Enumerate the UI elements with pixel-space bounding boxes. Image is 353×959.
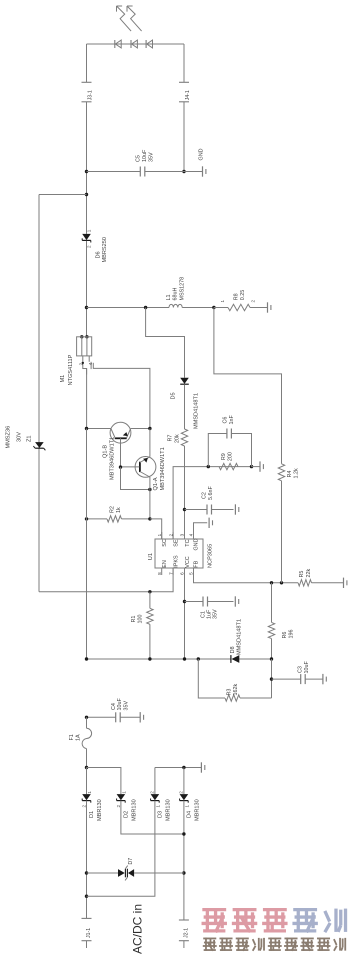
watermark brand text	[202, 908, 346, 951]
wire Q1-B collector to rail	[131, 427, 152, 430]
wire F1 to bridge	[85, 717, 88, 769]
svg-text:MSS1278: MSS1278	[179, 277, 185, 301]
svg-text:D2: D2	[123, 811, 129, 818]
IC U1 NCP3065 (switching regulator)	[148, 532, 213, 575]
wire main column mid	[86, 429, 88, 660]
svg-text:10uF: 10uF	[142, 149, 148, 162]
svg-text:2: 2	[116, 805, 121, 808]
capacitor C6 1nF	[208, 415, 251, 467]
svg-text:R2: R2	[109, 506, 115, 513]
wire rail Q1A emitter segments	[149, 429, 151, 519]
diode D8 MMSD4148T1	[230, 619, 243, 663]
wire D6 to switch node	[85, 241, 88, 337]
svg-text:MBRS250: MBRS250	[102, 237, 108, 263]
LED diode 2 (external string)	[131, 40, 137, 48]
svg-text:2: 2	[149, 791, 154, 794]
svg-text:1.2k: 1.2k	[294, 468, 300, 478]
ground (C2)	[235, 504, 238, 514]
svg-text:2: 2	[251, 300, 256, 303]
svg-text:Z1: Z1	[27, 435, 33, 442]
wire R6 bottom node	[270, 659, 273, 681]
svg-text:NCP3065: NCP3065	[208, 544, 214, 568]
wire EN rail to pin7	[39, 568, 173, 594]
svg-text:4: 4	[88, 362, 93, 365]
svg-text:20k: 20k	[174, 434, 180, 443]
svg-text:NTGS4111P: NTGS4111P	[68, 354, 74, 385]
resistor R4 1.2k	[278, 464, 299, 481]
svg-text:R8: R8	[233, 293, 239, 300]
svg-text:J3-1: J3-1	[87, 90, 93, 100]
wire R7 to pin3 (TC)	[183, 446, 186, 539]
svg-text:R6: R6	[282, 632, 288, 639]
svg-text:D5: D5	[171, 392, 177, 399]
ground (R5)	[344, 578, 347, 588]
wire pin6 (VCC) down	[183, 568, 186, 659]
svg-text:F1: F1	[69, 734, 75, 740]
svg-text:MBR130: MBR130	[194, 799, 200, 821]
capacitor C1 1uF 35V	[185, 597, 234, 620]
svg-text:M1: M1	[60, 375, 66, 383]
svg-text:22k: 22k	[306, 569, 312, 578]
wire pin5 (FB) feedback line	[194, 568, 299, 585]
svg-text:68uH: 68uH	[173, 288, 179, 301]
wire Q1 base link	[119, 465, 140, 468]
svg-text:6: 6	[180, 572, 185, 575]
svg-text:1k: 1k	[116, 507, 122, 513]
svg-text:30V: 30V	[17, 432, 23, 442]
svg-text:C3: C3	[298, 666, 304, 673]
svg-text:1: 1	[220, 300, 225, 303]
svg-text:1nF: 1nF	[229, 415, 235, 425]
svg-text:TC: TC	[185, 539, 191, 546]
svg-text:IPKS: IPKS	[173, 555, 179, 568]
svg-text:200: 200	[227, 452, 233, 461]
svg-text:7: 7	[168, 572, 173, 575]
connector J1-1	[82, 918, 93, 948]
svg-text:SC: SC	[162, 539, 168, 547]
wire bridge AC top left	[87, 768, 121, 795]
svg-text:J1-1: J1-1	[86, 928, 92, 938]
svg-text:1: 1	[122, 791, 127, 794]
resistor R8 0.25 (current sense)	[214, 290, 268, 311]
ground GND (output)	[184, 148, 206, 176]
wire to pin1 (SC)	[150, 519, 162, 539]
svg-text:4: 4	[189, 533, 194, 536]
diode D4 MBR130	[178, 791, 200, 821]
svg-text:2: 2	[178, 791, 183, 794]
svg-text:C2: C2	[201, 492, 207, 499]
svg-text:L1: L1	[166, 295, 172, 301]
wire D3 top leg	[154, 768, 156, 795]
svg-text:R9: R9	[221, 453, 227, 460]
resistor R7 20k	[168, 429, 188, 446]
svg-text:Q1-A: Q1-A	[153, 477, 159, 490]
svg-text:1uF: 1uF	[207, 609, 213, 619]
svg-text:0.25: 0.25	[240, 290, 246, 301]
svg-text:2: 2	[168, 533, 173, 536]
svg-text:D4: D4	[186, 811, 192, 818]
svg-text:D7: D7	[128, 858, 134, 865]
resistor R9 200	[219, 452, 238, 470]
connector J4-1	[179, 82, 191, 102]
connector J3-1	[82, 82, 94, 102]
wire D2 to D4 column	[121, 801, 184, 834]
wire switch node to D5	[146, 308, 185, 378]
wire D4 top leg	[183, 768, 185, 795]
svg-text:R3: R3	[226, 689, 232, 696]
ground (comp network)	[252, 461, 264, 471]
wire R4 to FB	[281, 481, 283, 583]
svg-text:SE: SE	[173, 539, 179, 547]
label AC/DC in	[130, 904, 144, 954]
capacitor C5	[87, 149, 185, 176]
wire LED string top	[87, 43, 185, 45]
svg-text:196: 196	[289, 630, 295, 639]
wire D1 top leg	[86, 768, 88, 795]
svg-text:MBT3946DW1T1: MBT3946DW1T1	[110, 437, 116, 480]
diode D2 MBR130	[116, 791, 137, 821]
wire bridge gnd top right	[155, 766, 202, 769]
svg-text:3: 3	[180, 533, 185, 536]
svg-text:J2-1: J2-1	[184, 928, 190, 938]
wire D4 to J2-1 column	[182, 801, 185, 920]
svg-text:R4: R4	[287, 471, 293, 478]
svg-text:MMSD4148T1: MMSD4148T1	[193, 393, 199, 429]
svg-text:D8: D8	[230, 646, 236, 653]
svg-text:8: 8	[157, 572, 162, 575]
svg-text:D1: D1	[89, 811, 95, 818]
svg-text:2: 2	[79, 362, 84, 365]
svg-text:162k: 162k	[233, 684, 239, 696]
svg-text:GND: GND	[198, 148, 204, 160]
diode D1 MBR130	[82, 791, 103, 821]
fuse F1 1A	[69, 728, 92, 748]
svg-text:1: 1	[156, 805, 161, 808]
ground (C4)	[140, 712, 143, 722]
diode D5 MMSD4148T1	[171, 378, 200, 429]
svg-text:MBR130: MBR130	[131, 799, 137, 821]
svg-text:R5: R5	[299, 571, 305, 578]
transistor M1 NTGS4111P (P-MOSFET)	[60, 335, 93, 385]
svg-text:MBR130: MBR130	[97, 799, 103, 821]
svg-text:C6: C6	[222, 417, 228, 424]
svg-text:C1: C1	[201, 611, 207, 618]
svg-text:AC/DC in: AC/DC in	[130, 904, 144, 954]
svg-text:EN: EN	[162, 560, 168, 568]
LED light-emission arrows	[117, 6, 142, 31]
diode D7 (bidirectional TVS)	[87, 858, 184, 881]
ground (C1)	[235, 596, 238, 606]
ground (after R8)	[268, 302, 271, 312]
svg-text:U1: U1	[148, 553, 154, 560]
capacitor C4 10uF 35V	[85, 698, 140, 723]
zener Z1 MMSZ36 30V	[6, 426, 46, 451]
svg-text:35V: 35V	[123, 701, 129, 711]
svg-text:1: 1	[87, 229, 92, 232]
wire sense node to R4	[214, 308, 282, 464]
svg-text:D6: D6	[95, 251, 101, 258]
svg-text:J4-1: J4-1	[185, 90, 191, 100]
resistor R5 22k	[298, 569, 343, 586]
svg-text:VCC: VCC	[185, 556, 191, 567]
LED diode 3 (external string)	[146, 40, 152, 48]
svg-text:5.6nF: 5.6nF	[208, 486, 214, 500]
svg-text:Q1-B: Q1-B	[103, 445, 109, 458]
svg-text:2: 2	[82, 805, 87, 808]
svg-text:MMSZ36: MMSZ36	[6, 426, 12, 449]
wire Q1 base loop to rail	[121, 467, 152, 491]
inductor L1 68uH MSS1278	[166, 277, 185, 308]
wire D1 to J1-1 column	[85, 801, 88, 919]
resistor R3 162k	[198, 659, 271, 701]
svg-text:10uF: 10uF	[304, 661, 310, 674]
wire left rail (EN rail)	[38, 195, 40, 592]
diode D6 MBRS250	[82, 229, 108, 262]
wire LED left leg	[86, 44, 88, 82]
svg-text:R1: R1	[131, 616, 137, 623]
svg-text:MBR130: MBR130	[165, 799, 171, 821]
wire J4-1 down to C5/GND node	[182, 102, 185, 173]
wire M1 gate to Q1 rail	[93, 368, 150, 428]
resistor R2 1k	[85, 506, 152, 522]
ground (C3)	[323, 674, 326, 684]
svg-text:10uF: 10uF	[117, 698, 123, 711]
resistor R6 196	[268, 583, 294, 659]
svg-text:2: 2	[87, 245, 92, 248]
wire node to left rail	[39, 194, 87, 196]
wire node to Q1-B emitter	[85, 427, 111, 430]
svg-text:MMSD4148T1: MMSD4148T1	[237, 619, 243, 655]
wire switch node horizontal	[87, 306, 216, 309]
ground (pin4)	[209, 518, 212, 528]
svg-text:C4: C4	[111, 703, 117, 710]
svg-text:D3: D3	[157, 811, 163, 818]
wire pin4 (GND) to ground	[194, 523, 208, 539]
svg-text:1: 1	[157, 533, 162, 536]
svg-text:35V: 35V	[213, 609, 219, 619]
svg-text:35V: 35V	[149, 152, 155, 162]
svg-text:1: 1	[87, 791, 92, 794]
transistor Q1-A MBT3946DW1T1	[135, 447, 166, 490]
diode D3 MBR130	[149, 791, 171, 821]
svg-text:1: 1	[185, 805, 190, 808]
svg-text:1A: 1A	[76, 734, 82, 741]
svg-text:FB: FB	[193, 560, 199, 567]
wire D3 to J1 column	[87, 801, 155, 897]
connector J2-1	[179, 920, 190, 948]
svg-text:MBT3946DW1T1: MBT3946DW1T1	[160, 447, 166, 490]
wire pin2 (SE) to comp node	[173, 465, 253, 539]
wire LED right leg	[183, 44, 185, 82]
resistor R1 100	[131, 592, 153, 659]
transistor Q1-B MBT3946DW1T1	[103, 422, 131, 480]
svg-text:GND: GND	[193, 538, 199, 550]
svg-text:100: 100	[138, 615, 144, 624]
LED diode 1 (external string)	[115, 40, 121, 48]
capacitor C3 10uF	[272, 661, 323, 685]
capacitor C2 5.6nF	[185, 486, 234, 515]
wire D5 to R7	[184, 384, 186, 429]
svg-text:5: 5	[189, 572, 194, 575]
wire bias rail	[85, 657, 273, 660]
wire J3-1 down to input node	[85, 102, 88, 234]
wire M1 source down	[86, 369, 88, 429]
ground (bridge)	[201, 762, 204, 772]
svg-text:R7: R7	[168, 435, 174, 442]
svg-text:C5: C5	[136, 155, 142, 162]
